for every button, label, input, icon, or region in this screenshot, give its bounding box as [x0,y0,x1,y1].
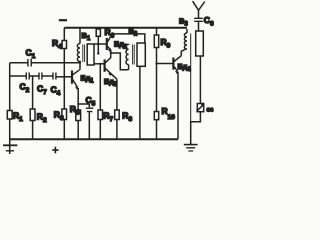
resistor R10 [156,64,158,112]
capacitor C4 [53,73,56,80]
wire R2 branch [32,76,34,109]
capacitor C7 [39,73,42,80]
capacitor C6 [194,18,203,21]
capacitor C1 [28,59,31,67]
svg-text:В1: В1 [82,31,91,42]
svg-text:C7: C7 [37,84,47,97]
wire Bd2 emitter jog [111,50,129,70]
wire B1 secondary to Bd3 base [94,63,105,65]
wire C1 line [10,62,80,64]
transistor Bd2 [106,38,108,50]
svg-text:сз: сз [207,107,215,114]
node R9/R10/base Bd4 [155,62,157,64]
transistor Bd3 [103,59,105,71]
resistor R8 [116,79,118,110]
wire B3 secondary down [199,56,201,104]
wire bias line R4 to base [63,49,65,78]
svg-text:C4: C4 [51,85,61,98]
transformer B1 [79,28,81,44]
wire top rail [64,27,187,29]
svg-text:В3: В3 [179,17,188,28]
wire base to R3 [63,77,65,109]
transformer B2 [128,65,130,70]
svg-text:R1: R1 [13,111,23,124]
wire coil to collector Bd1 [79,63,81,70]
wire bottom rail [10,138,178,140]
transistor Bd4 [172,58,174,70]
svg-text:Бд1: Бд1 [81,74,95,85]
antenna [193,1,205,18]
wire B2 primary return [139,66,141,139]
resistor R5 [77,104,79,110]
svg-text:R4: R4 [52,38,62,51]
node R7 tap [99,63,101,65]
resistor R6 [97,28,99,29]
svg-text:C5: C5 [86,95,96,108]
svg-text:R9: R9 [161,37,171,50]
node bias/base junction [63,76,65,78]
node emitter T [77,103,79,105]
wire C2/C7/C4 input line [10,75,53,77]
wire left rail [9,63,11,111]
resistor R7 [99,64,101,110]
svg-text:Бд2: Бд2 [114,40,128,51]
transistor Bd1 [71,71,73,84]
earphone cz [197,104,203,112]
svg-text:R2: R2 [37,112,47,125]
svg-text:C6: C6 [204,15,214,28]
resistor R1 [7,111,12,120]
wire Bd1 emitter down [77,88,79,104]
capacitor C5 [88,104,90,107]
node collector/C1/coil junction [79,61,81,63]
wire B1 secondary to Bd2 base [94,43,107,45]
transformer B3 [186,29,188,33]
wire Bd4 emitter down [177,72,179,139]
svg-text:C1: C1 [26,48,36,61]
node R6/base Bd2 [97,43,99,45]
resistor R2 [30,109,35,121]
resistor R4 [63,28,65,41]
wire Bd2 collector run [112,34,145,43]
svg-text:Бд4: Бд4 [178,62,192,73]
svg-text:C2: C2 [20,82,30,95]
plus supply mark [52,147,58,154]
svg-text:R10: R10 [162,106,176,121]
resistor R3 [62,109,67,120]
svg-text:R8: R8 [122,111,132,124]
wire cz to ground [191,112,201,144]
resistor R9 [156,28,158,35]
capacitor C2 [26,73,29,80]
node Bd3 collector tie [110,52,112,54]
wire base Bd4 [157,63,174,65]
ground right [184,144,198,146]
minus supply mark [59,19,67,21]
svg-text:R7: R7 [103,111,113,124]
ground left [9,139,11,154]
